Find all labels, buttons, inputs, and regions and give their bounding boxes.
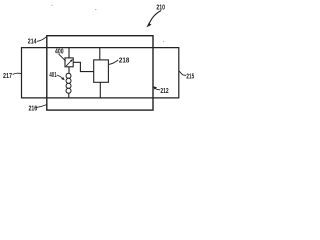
wire: box 400 to inductor: [68, 67, 70, 74]
svg-text:215: 215: [186, 74, 194, 81]
scan speckles: [52, 5, 165, 42]
leader for 400: [59, 54, 66, 61]
svg-text:214: 214: [28, 39, 37, 46]
leader for 217: [13, 73, 22, 74]
bottom rail wire (y=97.9): [22, 97, 179, 99]
svg-text:216: 216: [29, 106, 38, 113]
leader arrow for 212: [153, 86, 160, 90]
wire: box 218 to bottom rail: [99, 82, 101, 98]
left block 217 left edge: [21, 47, 23, 98]
top rail wire (y=47.6): [22, 47, 179, 49]
variable element arrow inside 400: [66, 59, 73, 66]
svg-text:401: 401: [49, 72, 56, 79]
leader for 216: [36, 105, 47, 108]
component box 218: [94, 60, 109, 82]
svg-text:210: 210: [156, 2, 165, 11]
leader for 218: [109, 60, 119, 65]
svg-text:212: 212: [160, 88, 168, 95]
leader arrow for 401: [57, 75, 65, 80]
variable impedance box 400: [65, 58, 73, 67]
wire: box 400 right to box 218 (L shaped): [73, 62, 94, 71]
inductor L 401 coil: [66, 73, 71, 93]
wire: inductor to bottom rail: [68, 93, 70, 98]
leader for 214: [37, 37, 47, 42]
leader for 215: [179, 71, 186, 76]
leader arrow for 210: [147, 11, 162, 28]
wire: top rail to box 218: [99, 48, 101, 60]
outer housing rect 212: [47, 36, 153, 110]
svg-text:218: 218: [119, 58, 129, 65]
right block 215 right edge: [178, 47, 180, 98]
svg-text:217: 217: [3, 73, 12, 80]
wire: top rail to variable element 400: [68, 48, 70, 58]
